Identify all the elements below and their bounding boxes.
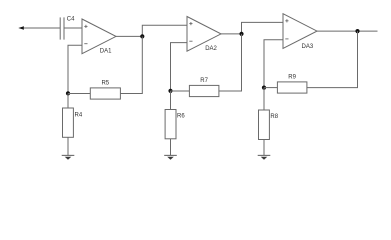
- wire J1 up and right to DA2 + input: [142, 25, 187, 36]
- wire J4 down to R4: [67, 93, 69, 108]
- resistor R9: [277, 82, 307, 93]
- svg-text:R6: R6: [177, 113, 185, 119]
- wire C4 to DA1 + input: [64, 27, 82, 29]
- wire R6 to ground: [170, 139, 172, 156]
- resistor R4: [63, 108, 74, 137]
- svg-text:R9: R9: [288, 74, 296, 80]
- wire input to C4: [24, 27, 61, 29]
- wire DA2 - input left and down to node J5: [171, 43, 188, 91]
- svg-text:C4: C4: [67, 16, 75, 22]
- capacitor C4: [60, 17, 64, 39]
- node J2: [239, 32, 243, 36]
- resistor R6: [165, 110, 176, 139]
- svg-text:R4: R4: [75, 113, 83, 119]
- wire R5 right up to J1: [120, 36, 142, 93]
- wire J5 to R7: [171, 90, 190, 92]
- ground: [62, 155, 75, 159]
- node J5: [168, 89, 172, 93]
- op-amp DA1: [82, 19, 116, 54]
- wire DA2 output to node J2: [221, 33, 242, 35]
- ground: [258, 155, 271, 159]
- node J3: [355, 29, 359, 33]
- wire DA1 - input left and down to node J4: [68, 45, 82, 93]
- wire DA1 output to node J1: [116, 35, 142, 37]
- svg-text:DA2: DA2: [205, 46, 217, 52]
- resistor R7: [189, 85, 219, 96]
- svg-text:DA1: DA1: [100, 49, 112, 55]
- node J6: [262, 86, 266, 90]
- op-amp DA2: [187, 17, 221, 52]
- input terminal arrow: [18, 26, 24, 30]
- resistor R5: [90, 88, 120, 99]
- wire J6 to R9: [264, 87, 277, 89]
- op-amp DA3: [283, 14, 317, 49]
- wire R4 to ground: [67, 137, 69, 155]
- svg-text:R5: R5: [101, 80, 109, 86]
- svg-text:R8: R8: [270, 114, 278, 120]
- wire R9 right up to J3: [307, 31, 358, 88]
- node J1: [140, 34, 144, 38]
- wire DA3 output to right edge: [317, 30, 378, 32]
- ground: [164, 155, 177, 159]
- wire DA3 - input left and down to node J6: [264, 40, 283, 88]
- wire J6 down to R8: [263, 88, 265, 110]
- resistor R8: [259, 110, 270, 140]
- svg-text:DA3: DA3: [302, 44, 314, 50]
- wire R7 right up to J2: [219, 34, 242, 91]
- wire J2 up and right to DA3 + input: [242, 22, 284, 34]
- wire R8 to ground: [263, 140, 265, 156]
- wire J4 to R5: [68, 93, 90, 95]
- node J4: [66, 91, 70, 95]
- svg-text:R7: R7: [200, 78, 208, 84]
- wire J5 down to R6: [170, 91, 172, 110]
